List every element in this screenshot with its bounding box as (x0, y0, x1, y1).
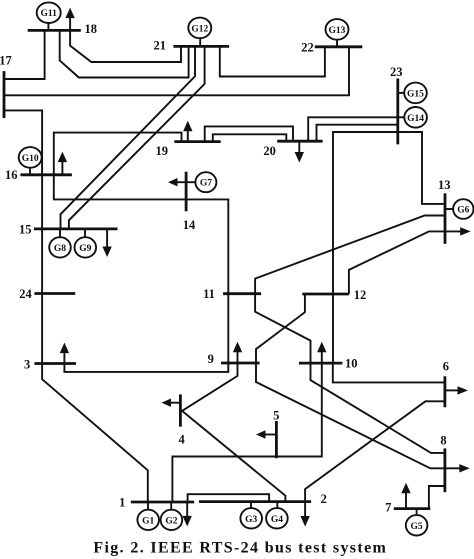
svg-text:9: 9 (208, 352, 214, 366)
svg-text:G2: G2 (165, 516, 177, 526)
svg-text:G6: G6 (457, 206, 469, 216)
svg-text:17: 17 (0, 54, 12, 68)
svg-text:13: 13 (438, 178, 451, 192)
svg-text:14: 14 (183, 218, 196, 232)
svg-text:12: 12 (354, 288, 367, 302)
svg-text:20: 20 (263, 144, 276, 158)
svg-text:15: 15 (19, 222, 32, 236)
svg-text:18: 18 (84, 22, 97, 36)
svg-text:19: 19 (155, 144, 168, 158)
svg-text:2: 2 (321, 492, 327, 506)
svg-text:4: 4 (178, 432, 185, 446)
svg-text:8: 8 (440, 433, 446, 447)
svg-text:G15: G15 (407, 89, 424, 99)
svg-text:Fig. 2. IEEE RTS-24 bus test s: Fig. 2. IEEE RTS-24 bus test system (93, 540, 387, 557)
svg-text:G11: G11 (41, 9, 58, 19)
svg-text:G4: G4 (271, 515, 283, 525)
svg-text:24: 24 (19, 287, 32, 301)
svg-text:G7: G7 (200, 179, 212, 189)
svg-text:G10: G10 (22, 154, 39, 164)
svg-text:G8: G8 (54, 244, 66, 254)
svg-text:G1: G1 (142, 516, 154, 526)
svg-text:11: 11 (203, 287, 215, 301)
svg-text:3: 3 (24, 357, 30, 371)
svg-text:21: 21 (154, 39, 167, 53)
svg-text:23: 23 (390, 65, 403, 79)
svg-text:22: 22 (301, 41, 314, 55)
svg-text:16: 16 (5, 168, 18, 182)
svg-text:7: 7 (385, 500, 391, 514)
svg-text:1: 1 (119, 495, 125, 509)
svg-text:G9: G9 (79, 244, 91, 254)
svg-text:G12: G12 (191, 24, 208, 34)
svg-text:G14: G14 (407, 114, 424, 124)
svg-text:G5: G5 (411, 522, 423, 532)
svg-text:5: 5 (273, 409, 279, 423)
svg-text:G3: G3 (245, 515, 257, 525)
svg-text:G13: G13 (329, 26, 346, 36)
svg-text:6: 6 (443, 359, 449, 373)
svg-text:10: 10 (345, 356, 358, 370)
